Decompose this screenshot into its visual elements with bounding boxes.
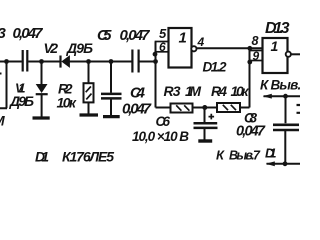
svg-text:3: 3 [0,25,7,42]
node A (left input node) [4,59,9,64]
svg-text:0,047: 0,047 [122,101,152,118]
pin 5 and pin 6 tie box of D1.2 [156,42,169,52]
svg-text:D1.3: D1.3 [265,20,290,37]
wire V1 branch [41,62,43,85]
svg-text:С4: С4 [130,85,146,102]
wire C6 stem to ground [204,129,206,140]
svg-text:0,047: 0,047 [236,124,266,140]
wire vertical input net of D1.2 [155,42,157,108]
svg-text:Д9Б: Д9Б [9,93,34,109]
wire vertical input net of D1.3 [249,48,251,107]
inversion circle at D1.2 output [191,46,196,51]
svg-text:8: 8 [252,34,259,48]
node J (top of C8) [283,94,288,99]
svg-text:1: 1 [179,30,187,47]
svg-text:1М: 1М [185,83,201,99]
capacitor C5 (plates) [132,50,138,73]
wire C8 stem down [284,131,286,164]
diode V1 (triangle pointing down, bar below) [36,84,48,93]
wire C5 to gate input junction [139,61,155,63]
svg-text:К176ЛЕ5: К176ЛЕ5 [62,149,114,165]
wire R3 to R4 [193,107,218,109]
svg-text:1: 1 [271,38,279,54]
node C (top of R2) [86,59,91,64]
node B (junction of C3, V2, V1) [39,59,44,64]
wire bottom row to right edge [267,163,301,165]
svg-text:К: К [216,148,225,163]
svg-text:D1.2: D1.2 [203,60,227,75]
wire left drop from node A exiting left edge [0,62,7,109]
node F (junction with top rail) [153,59,158,64]
wire R2 branch [88,62,90,84]
svg-text:С6: С6 [156,114,171,129]
svg-text:9: 9 [253,49,260,63]
arrow to pin 7 (left pointing) [266,161,275,166]
wire C4 stem to ground [110,99,112,116]
ground bar under V1 [33,116,50,119]
svg-text:10к: 10к [57,95,77,111]
arrow to pin (left pointing) [263,94,272,99]
wire C4 branch [110,62,112,93]
svg-text:D1: D1 [265,146,277,161]
diode V2 (cathode bar left, triangle pointing left) [59,56,61,68]
svg-text:0,047: 0,047 [13,25,44,42]
node H (pin8 junction dot) [247,46,252,51]
wire C8 branch [285,96,287,123]
svg-text:D1: D1 [35,149,49,165]
ground bar under C4 [103,115,120,118]
wire V2 to C5 [70,61,132,63]
svg-text:0,047: 0,047 [120,27,151,44]
resistor R2 (vertical body with hatch) [84,83,94,102]
speck at left edge [0,73,2,75]
resistor R4 (horizontal body with hatch) [217,103,240,112]
svg-text:Выв.7: Выв.7 [229,149,261,163]
wire R3 left stub [156,107,171,109]
wire C6 branch [204,108,206,123]
svg-text:V2: V2 [44,40,59,56]
wire V1 stem to ground [41,95,43,118]
svg-text:R3: R3 [164,83,181,99]
capacitor C4 (plates) [101,94,122,99]
wire D1.3 output to right edge [291,53,300,55]
node I (pin9 junction dot) [247,60,252,65]
capacitor partial at right edge [297,105,301,113]
svg-text:С5: С5 [97,27,112,44]
op-element D1.2 (NOR gate body) [169,28,192,68]
wire from D1.2 output to D1.3 pin 8 [197,47,263,49]
svg-text:К Выв.8: К Выв.8 [260,77,300,92]
svg-text:4: 4 [197,35,205,49]
node D (top of C4) [109,59,114,64]
resistor R3 (horizontal body with hatch) [171,104,193,113]
polarity + of C6 [209,114,215,120]
op-element D1.3 (NOR gate body) [263,38,288,73]
ground bar under R2 [80,113,99,116]
wire main top rail left segment [0,61,22,63]
capacitor C3 (plates) [23,50,28,72]
svg-text:10,0 ×10 В: 10,0 ×10 В [132,129,189,144]
pin 8 / pin 9 tie box of D1.3 [250,51,263,61]
svg-text:Д9Б: Д9Б [66,40,93,56]
wire C3 to V2 [28,61,60,63]
inversion circle at D1.3 output [286,52,291,57]
capacitor C6 electrolytic (plates) [194,123,218,128]
svg-text:5: 5 [159,26,167,41]
ground bar under C6 [198,139,212,142]
wire supply row with node to C8 [264,95,301,97]
wire R2 stem to ground [88,102,90,114]
svg-text:10к: 10к [231,83,250,99]
capacitor C8 (plates) [273,125,299,130]
svg-text:М: М [0,113,5,129]
wire R4 to D1.3 input net [240,107,250,109]
node G (junction R3/R4/C6) [202,105,207,110]
svg-text:R4: R4 [211,83,227,99]
node K (bottom of C8) [283,161,288,166]
node E (pin6 junction dot) [153,52,158,57]
svg-text:6: 6 [159,40,166,54]
